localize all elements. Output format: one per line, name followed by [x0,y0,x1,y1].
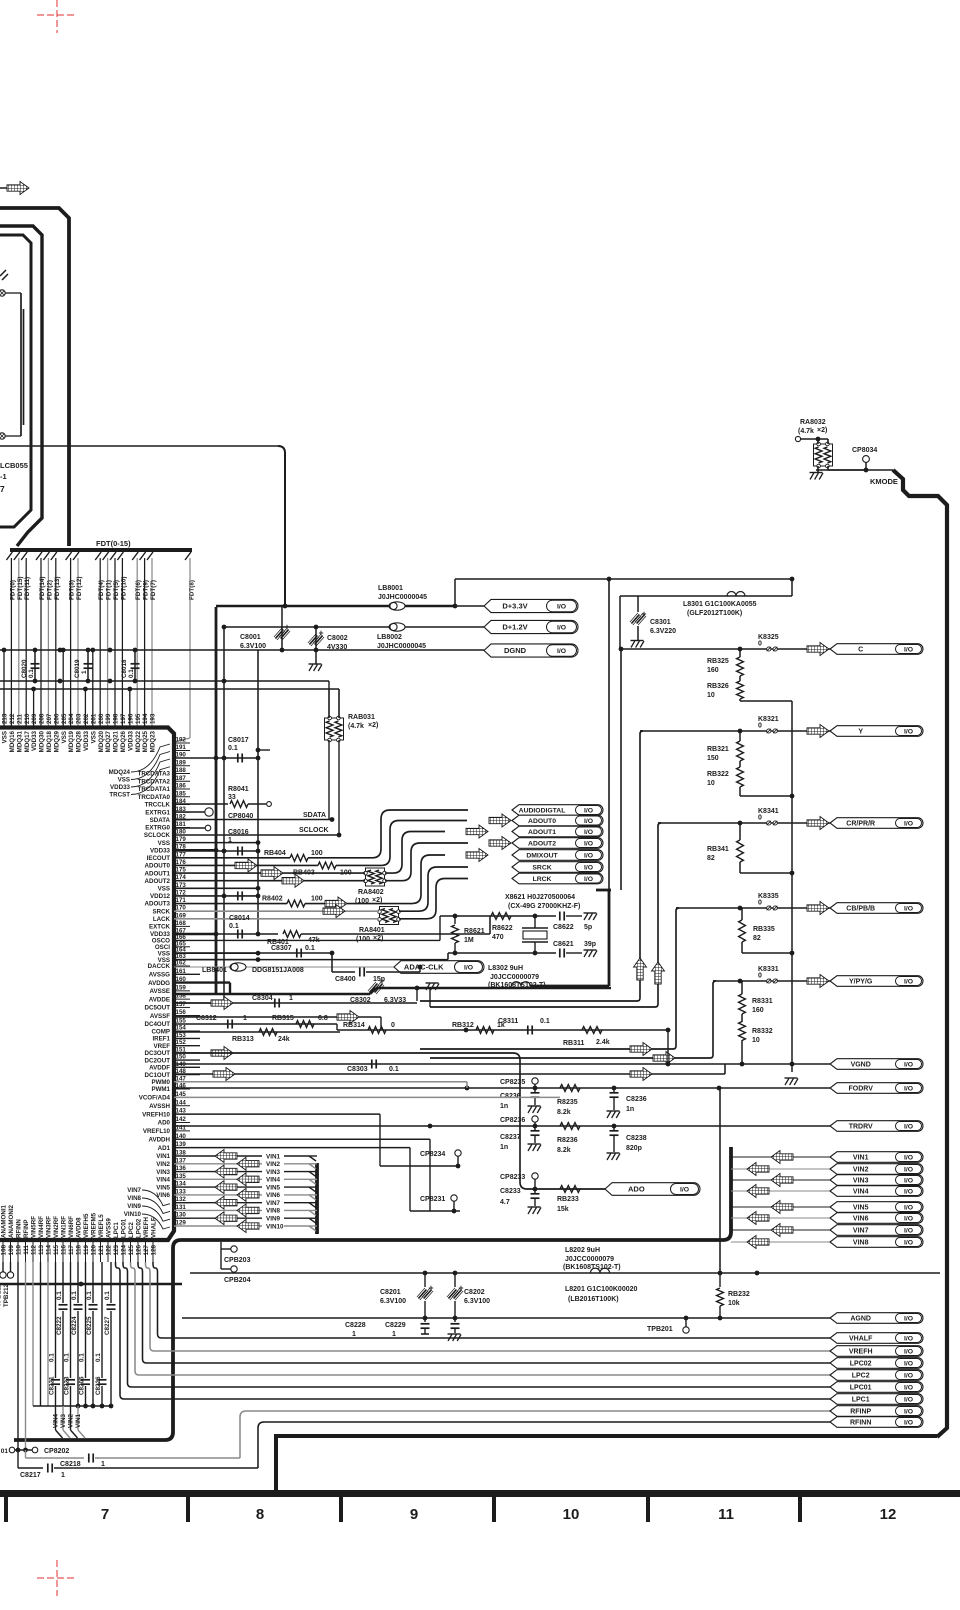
wire bus loop outer [0,208,69,546]
svg-text:C8218: C8218 [60,1461,81,1468]
svg-text:CPB204: CPB204 [224,1277,251,1284]
svg-text:C8001: C8001 [240,634,261,641]
svg-text:AVSS9: AVSS9 [106,1218,113,1238]
wire bus loop 3 [0,235,31,527]
svg-text:VIN4: VIN4 [53,1414,60,1428]
wire C net [620,648,830,650]
pill CB/PB/B [830,903,923,914]
svg-text:7: 7 [0,484,5,494]
svg-text:VIN2: VIN2 [266,1161,280,1168]
wire row AVDDH [174,1138,430,1140]
svg-text:LPC2: LPC2 [128,1222,135,1238]
svg-text:208: 208 [39,713,46,724]
pill CR/PR/R [830,818,923,829]
wire VHALF net [153,1262,830,1338]
svg-text:C8223: C8223 [64,1376,71,1395]
svg-text:FDT(6): FDT(6) [135,580,142,600]
wire cap bottom rail [33,1405,111,1407]
svg-text:LRCK: LRCK [533,876,552,883]
svg-text:I/O: I/O [904,1315,913,1322]
svg-text:AVSSH: AVSSH [149,1103,170,1110]
svg-text:1n: 1n [626,1106,634,1113]
arrow row DC3OUT [174,1073,410,1075]
arrow ADOUT2 [489,837,511,850]
crystal box border [608,890,611,986]
svg-text:120: 120 [91,1244,98,1255]
svg-text:181: 181 [176,821,187,828]
svg-text:127: 127 [143,1244,150,1255]
svg-text:1: 1 [228,837,232,844]
pill LPC02 [830,1358,923,1369]
ground C8238 [607,1152,620,1154]
svg-text:160: 160 [707,667,719,674]
svg-text:6.3V100: 6.3V100 [464,1298,490,1305]
svg-text:FDT(13): FDT(13) [54,577,61,600]
svg-text:196: 196 [127,713,134,724]
svg-text:100: 100 [311,896,323,903]
wire ADAC-CLK net [174,966,394,968]
svg-text:L8202 9uH: L8202 9uH [565,1247,600,1254]
svg-text:MDQ18: MDQ18 [46,730,53,752]
svg-text:VIN3: VIN3 [156,1169,170,1176]
wire FODRV junction vertical [719,1088,721,1273]
arrow VIN4 [747,1185,769,1198]
svg-text:R8041: R8041 [228,786,249,793]
svg-text:FDT(10): FDT(10) [120,577,127,600]
svg-text:C8236: C8236 [500,1093,521,1100]
svg-text:ANAMONI2: ANAMONI2 [8,1204,15,1238]
svg-text:RB322: RB322 [707,771,729,778]
capacitor C8205 [85,1262,87,1378]
arrow Y [807,725,829,738]
capacitor C8622 [559,912,561,921]
svg-text:AD1: AD1 [158,1145,171,1152]
svg-text:DC5OUT: DC5OUT [145,1005,171,1012]
wire VIN1 net right [731,1156,830,1158]
svg-text:0.1: 0.1 [305,945,315,952]
svg-text:J0JHC0000045: J0JHC0000045 [378,594,427,601]
svg-text:0.1: 0.1 [86,1291,93,1300]
svg-text:6.8: 6.8 [318,1015,328,1022]
svg-text:C8221: C8221 [49,1376,56,1395]
svg-text:R8402: R8402 [262,896,283,903]
bus entry VIN3 [309,1172,316,1177]
svg-text:0.1: 0.1 [79,1353,86,1362]
wire AVDD thick [174,981,230,983]
ground C8233 [528,1206,541,1208]
pill AUDIODIGTAL [512,805,603,816]
capacitor C8312 [227,1020,229,1029]
svg-text:MDQ26: MDQ26 [120,730,127,752]
svg-text:193: 193 [150,713,157,724]
svg-text:R8332: R8332 [752,1028,773,1035]
svg-text:LB8002: LB8002 [377,634,402,641]
arrow VIN4 left [237,1173,259,1186]
svg-text:0.1: 0.1 [49,1353,56,1362]
svg-text:0.1: 0.1 [389,1066,399,1073]
resistor R8331 [741,981,743,994]
svg-text:FDT(0): FDT(0) [9,580,16,600]
svg-text:185: 185 [176,790,187,797]
pill FODRV [830,1083,923,1094]
IC top pin numbers and names [2,713,157,752]
ruler bar bottom [0,1490,960,1497]
wire VDD12 feed vertical x224 [223,627,225,1003]
svg-text:10k: 10k [728,1300,740,1307]
svg-text:MDQ27: MDQ27 [105,730,112,752]
svg-text:0.1: 0.1 [228,745,238,752]
svg-text:VSS: VSS [61,731,68,743]
svg-text:VIN5: VIN5 [266,1184,280,1191]
svg-text:15p: 15p [373,976,385,983]
svg-text:J0JCC0000079: J0JCC0000079 [490,974,539,981]
svg-text:0: 0 [758,815,762,822]
svg-text:0.1: 0.1 [64,1353,71,1362]
svg-text:202: 202 [83,713,90,724]
svg-text:144: 144 [176,1099,187,1106]
wire row VCOF [174,1096,560,1098]
svg-text:SRCK: SRCK [152,908,170,915]
svg-text:Y: Y [858,729,863,736]
svg-text:DACCK: DACCK [148,963,171,970]
pill Y/PY/G [830,976,923,987]
svg-text:110: 110 [16,1244,23,1255]
svg-text:×2): ×2) [817,427,827,434]
svg-text:EXTRG1: EXTRG1 [145,809,170,816]
svg-text:MDQ25: MDQ25 [142,730,149,752]
svg-text:VIN10: VIN10 [266,1223,284,1230]
capacitor C8019 [87,650,89,681]
bus entry VIN5 [309,1187,316,1192]
svg-text:RFINN: RFINN [16,1219,23,1238]
svg-text:I/O: I/O [904,646,913,653]
wire VIN2 net right [731,1168,830,1170]
node KMODE [816,469,866,471]
resistor R8621 [454,916,456,924]
wire VIN6 from pin 133 [174,1194,262,1196]
svg-text:VREFH5: VREFH5 [83,1213,90,1238]
svg-text:7: 7 [101,1506,109,1523]
svg-text:I/O: I/O [584,864,593,871]
svg-text:L8301 G1C100KA0055: L8301 G1C100KA0055 [683,601,757,608]
svg-text:VIN4RF: VIN4RF [38,1216,45,1238]
svg-text:I/O: I/O [584,807,593,814]
svg-text:113: 113 [38,1244,45,1255]
svg-text:RB314: RB314 [343,1022,365,1029]
svg-text:0: 0 [758,641,762,648]
svg-text:RFINP: RFINP [23,1219,30,1238]
arrow VIN5 left [215,1181,237,1194]
svg-text:SCLOCK: SCLOCK [299,827,329,834]
svg-text:VIN8: VIN8 [853,1240,869,1247]
svg-text:1M: 1M [464,937,474,944]
resistor RB341 [739,823,741,840]
svg-text:119: 119 [83,1244,90,1255]
svg-text:197: 197 [120,713,127,724]
arrow VIN7 left [215,1196,237,1209]
capacitor C8236a [534,1088,536,1092]
wire VIN7 net right [731,1229,830,1231]
svg-text:1: 1 [392,1331,396,1338]
svg-text:118: 118 [76,1244,83,1255]
capacitor C8227 [110,1262,112,1303]
svg-text:123: 123 [113,1244,120,1255]
svg-text:VDD33: VDD33 [127,730,134,751]
wire D+1.2V net [224,626,484,628]
wire VIN2 from pin 137 [174,1163,262,1165]
svg-text:I/O: I/O [584,818,593,825]
ground ADAC-CLK [426,982,439,984]
svg-text:C8002: C8002 [327,635,348,642]
wire OSCI row [174,959,448,961]
svg-text:AVSSF: AVSSF [150,1013,170,1020]
svg-text:ADOUT0: ADOUT0 [145,863,171,870]
capacitor C8400 [331,953,333,972]
svg-text:5p: 5p [584,924,592,931]
svg-text:VREF: VREF [153,1043,170,1050]
pill SRCK [512,862,603,873]
svg-text:VIN1: VIN1 [75,1414,82,1428]
wire row ADOUT2 [174,880,365,882]
bus VIN vertical right [181,1147,731,1240]
svg-text:115: 115 [53,1244,60,1255]
svg-text:10: 10 [752,1037,760,1044]
svg-text:117: 117 [68,1244,75,1255]
pill VIN5 [830,1202,923,1213]
arrow CB/PB/B [807,902,829,915]
IC U8001 outline [0,728,174,1241]
svg-text:ADOUT1: ADOUT1 [145,870,171,877]
sheet border right/bottom [866,469,893,471]
svg-text:VREFH: VREFH [143,1216,150,1238]
svg-text:108: 108 [1,1244,8,1255]
wire VIN9 from pin 130 [174,1217,262,1219]
svg-text:8: 8 [256,1506,264,1523]
svg-text:CR/PR/R: CR/PR/R [846,821,875,828]
svg-text:VIN3RF: VIN3RF [46,1216,53,1238]
testpoint TPB211 [2,1262,4,1272]
wire RB326 to vgnd rail [739,699,741,701]
svg-text:VDD12: VDD12 [150,893,171,900]
capacitor C8304 [174,1002,417,1004]
svg-text:C8621: C8621 [553,941,574,948]
svg-text:AVSSG: AVSSG [149,971,170,978]
svg-text:01: 01 [1,1448,9,1455]
pill TRDRV [830,1121,923,1132]
svg-text:CP8034: CP8034 [852,447,877,454]
pill VIN3 [830,1175,923,1186]
svg-text:10: 10 [563,1506,580,1523]
svg-text:C8238: C8238 [626,1135,647,1142]
wire aux row y1072 [410,1073,725,1075]
svg-text:SDATA: SDATA [303,812,326,819]
svg-text:C8233: C8233 [500,1188,521,1195]
svg-text:LB8001: LB8001 [378,585,403,592]
svg-text:ADOUT1: ADOUT1 [528,829,556,836]
svg-text:I/O: I/O [904,1335,913,1342]
svg-text:LCB055: LCB055 [0,461,28,470]
resistor R8235 [560,1085,580,1092]
capacitor C8233 [534,1189,536,1193]
svg-text:FDT(9): FDT(9) [143,580,150,600]
svg-text:ADOUT3: ADOUT3 [145,901,171,908]
svg-text:FDT(11): FDT(11) [24,577,31,600]
svg-text:FDT(1): FDT(1) [106,580,113,600]
svg-text:10: 10 [707,692,715,699]
bus entry VIN10 [309,1226,316,1231]
svg-text:VIN2: VIN2 [68,1414,75,1428]
svg-text:189: 189 [176,759,187,766]
arrow VIN2 [747,1163,769,1176]
capacitor C8017 [174,757,258,759]
svg-text:DMIXOUT: DMIXOUT [526,852,558,859]
svg-text:C8225: C8225 [86,1316,93,1335]
wire VDD33 feed vertical x216 [215,607,218,994]
wire VIN8 net right [731,1241,830,1243]
svg-text:MDQ22: MDQ22 [135,730,142,752]
svg-text:FDT(4): FDT(4) [98,580,105,600]
svg-text:MDQ16: MDQ16 [9,730,16,752]
svg-text:I/O: I/O [904,1177,913,1184]
svg-text:RB321: RB321 [707,746,729,753]
arrow VIN3 left [215,1165,237,1178]
svg-text:VIN3: VIN3 [853,1178,869,1185]
svg-text:VIN2RF: VIN2RF [53,1216,60,1238]
arrow VIN7 [771,1224,793,1237]
resistor RB315 [296,1021,314,1028]
svg-text:VIN8: VIN8 [127,1195,141,1202]
svg-text:C8303: C8303 [347,1066,368,1073]
svg-text:1: 1 [352,1331,356,1338]
svg-text:RFINN: RFINN [850,1420,871,1427]
svg-text:ADOUT2: ADOUT2 [528,840,556,847]
bus VIN bottom thick [14,1240,181,1440]
svg-text:DGND: DGND [504,646,527,655]
svg-text:C8202: C8202 [464,1289,485,1296]
svg-text:I/O: I/O [904,1204,913,1211]
svg-text:RB325: RB325 [707,658,729,665]
svg-text:CP8202: CP8202 [44,1448,69,1455]
resistor RB321 [739,731,741,741]
svg-text:1n: 1n [500,1144,508,1151]
svg-text:FDT(14): FDT(14) [39,577,46,600]
svg-text:FODRV: FODRV [849,1086,874,1093]
svg-text:C8016: C8016 [228,829,249,836]
wire DGND net [282,649,484,651]
svg-text:6.3V220: 6.3V220 [650,628,676,635]
svg-text:128: 128 [151,1244,158,1255]
wire SDATA [174,819,332,821]
testpoint CPB203 [220,1242,222,1249]
svg-text:VIN3: VIN3 [60,1414,67,1428]
svg-text:COMP: COMP [151,1028,170,1035]
svg-text:I/O: I/O [904,1085,913,1092]
svg-text:VIN4: VIN4 [266,1177,280,1184]
svg-text:82: 82 [753,935,761,942]
IC pin leader labels MDQ24 VSS VDD33 TRCST [109,744,170,799]
svg-text:MDQ24: MDQ24 [109,769,131,776]
wire top power pin stubs [2,648,133,727]
pill VGND [830,1059,923,1070]
resistor RB233 [560,1186,580,1193]
arrow Y/PY/G [807,975,829,988]
IC right pin names [138,771,171,1199]
wire stub arrow top-left [0,187,8,189]
resistor RB313 [174,1031,340,1033]
svg-text:CP8231: CP8231 [420,1196,445,1203]
wire DAC row B [336,1024,338,1030]
pill D+3.3V [484,599,578,612]
pill ADOUT2 [512,838,603,849]
svg-text:0.1: 0.1 [28,669,35,678]
svg-text:C8237: C8237 [500,1134,521,1141]
svg-text:I/O: I/O [904,1408,913,1415]
svg-text:R8621: R8621 [464,928,485,935]
wire DAC row A [174,1023,337,1025]
svg-text:0.1: 0.1 [540,1018,550,1025]
wire VREFH net [146,1262,831,1351]
svg-text:I/O: I/O [904,1360,913,1367]
svg-text:J0JHC0000045: J0JHC0000045 [377,643,426,650]
testpoint TPB212 [10,1262,12,1272]
pill LPC2 [830,1370,923,1381]
svg-text:FDT(7): FDT(7) [150,580,157,600]
wire RB341 return [739,862,741,873]
wire VIN5 from pin 134 [174,1186,262,1188]
svg-text:820p: 820p [626,1145,642,1152]
svg-text:FDT(0-15): FDT(0-15) [96,539,131,548]
svg-text:ADOUT0: ADOUT0 [528,818,556,825]
svg-text:C8222: C8222 [56,1316,63,1335]
svg-text:192: 192 [176,737,187,744]
svg-text:9: 9 [410,1506,418,1523]
svg-text:159: 159 [176,984,187,991]
svg-text:CB/PB/B: CB/PB/B [846,906,875,913]
net labels VIN1-4 bottom [55,1406,57,1430]
arrow VIN1 left [215,1150,237,1163]
svg-text:LPC01: LPC01 [121,1218,128,1238]
svg-text:AVDDF: AVDDF [149,1065,170,1072]
svg-text:TRCST: TRCST [109,792,130,799]
wire OSCO row [174,939,440,941]
wire L8301 net [620,595,792,597]
ground C8229 [448,1333,461,1335]
bus entry VIN6 [309,1195,316,1200]
resistor RB232 [719,1273,721,1287]
wire VIN8 from pin 131 [174,1209,262,1211]
pill AGND [830,1313,923,1324]
wire top rail y579 [455,578,792,580]
capacitor C8201 [424,1273,426,1287]
svg-text:LPC02: LPC02 [136,1218,143,1238]
svg-text:C8227: C8227 [104,1316,111,1335]
svg-text:IECOUT: IECOUT [147,855,171,862]
svg-text:C8018: C8018 [121,659,128,678]
svg-text:AD0: AD0 [158,1120,171,1127]
svg-text:LB8401: LB8401 [202,967,227,974]
svg-text:DC4OUT: DC4OUT [145,1021,171,1028]
svg-text:142: 142 [176,1116,187,1123]
svg-text:VIN7: VIN7 [853,1228,869,1235]
svg-text:162: 162 [176,960,187,967]
wire CR feed vertical x658 [430,823,661,1007]
svg-text:TPB201: TPB201 [647,1326,673,1333]
capacitor C8311 [527,1026,529,1035]
wire crystal-box vertical x609 [608,579,610,890]
wire rail AVDD bottom thick [0,1283,182,1286]
svg-text:12: 12 [880,1506,897,1523]
svg-text:C8201: C8201 [380,1289,401,1296]
